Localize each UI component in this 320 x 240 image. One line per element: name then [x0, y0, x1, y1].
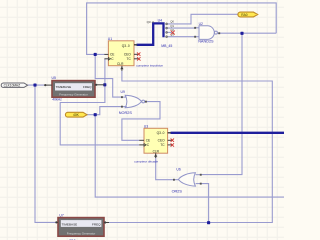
U3 pin names [146, 131, 166, 153]
U7 pins [56, 221, 109, 223]
bus U3 Q3..0 to right edge [171, 132, 285, 134]
wire feedback net top horizontal y=2.9 [87, 3, 277, 55]
svg-text:U1: U1 [108, 37, 112, 41]
svg-text:TC: TC [127, 57, 132, 61]
svg-text:Q3..0: Q3..0 [157, 131, 165, 135]
noERC on Q2 stub [171, 31, 175, 35]
NOR gate U9 [122, 95, 145, 107]
wire U1 CLR east long run [105, 71, 272, 223]
junction 40K port [94, 113, 97, 116]
svg-text:FREQ: FREQ [83, 85, 92, 89]
svg-text:40K: 40K [73, 113, 80, 117]
bus U1 Q3..0 staircase [137, 23, 164, 44]
wire FG1 output up to U1 clock pin [104, 59, 106, 85]
wire Q3 to NAND input 2 [166, 36, 195, 38]
wire NAND out branch down to OR gate input [201, 33, 243, 174]
svg-text:CEO: CEO [158, 139, 165, 143]
wire Q1 to NAND input 1 [166, 27, 195, 29]
svg-text:RA0: RA0 [241, 13, 248, 17]
svg-text:compteur impulsion: compteur impulsion [136, 64, 163, 68]
U7 pin dots [55, 221, 57, 223]
svg-text:U2: U2 [199, 22, 203, 26]
svg-text:CLR: CLR [117, 62, 124, 66]
svg-text:TIMEBASE: TIMEBASE [56, 85, 72, 89]
svg-text:compteur décade: compteur décade [134, 159, 158, 163]
svg-text:FREQ: FREQ [92, 222, 101, 226]
U6 pin end markers [173, 174, 202, 185]
svg-text:Q3..0: Q3..0 [147, 20, 155, 24]
svg-text:Frequency Generator: Frequency Generator [59, 92, 88, 96]
counter U1 body [108, 41, 134, 66]
svg-text:Q3..0: Q3..0 [122, 44, 130, 48]
svg-text:TC: TC [160, 143, 165, 147]
junction NAND output [240, 32, 243, 35]
svg-text:CE: CE [110, 53, 114, 57]
U2 pin end markers [194, 27, 220, 38]
U5 left pin [44, 84, 104, 86]
bus entry dots Q wires [166, 23, 168, 38]
U3 noERC CEO [171, 139, 174, 142]
U9 pin end markers [121, 96, 147, 107]
svg-text:U9: U9 [121, 90, 125, 94]
svg-text:MB_45: MB_45 [161, 44, 172, 48]
svg-text:U6: U6 [176, 167, 180, 171]
U1 noERC TC [137, 57, 140, 60]
wire NAND output to right corner [218, 32, 276, 34]
U1 noERC CEO [137, 52, 140, 55]
wire Q2 stub [166, 31, 172, 33]
U5 pin dots [44, 84, 46, 86]
wire CLK port to FG1 input [28, 84, 45, 86]
junction FG1 output [103, 83, 106, 86]
U1 CLR arrow [120, 66, 123, 69]
port CLK10MHZ [1, 83, 27, 88]
wire Q0 to RA0 port [166, 14, 239, 24]
svg-text:TIMEBASE: TIMEBASE [62, 222, 78, 226]
frequency generator U5 [52, 81, 95, 98]
junction CLK port [33, 84, 36, 87]
U3 CLR arrow [154, 154, 157, 157]
junction U1 CE [94, 53, 97, 56]
wire NOR output to U3 CE [122, 102, 160, 141]
svg-text:Frequency Generator: Frequency Generator [67, 231, 96, 235]
wire U3 CLR down to OR gate output [156, 158, 174, 180]
svg-text:NAND2S: NAND2S [198, 40, 214, 44]
junction FG2 output wire [207, 221, 210, 224]
svg-text:CE: CE [146, 139, 150, 143]
wire CLK branch down to FG2 input [35, 85, 56, 222]
port 40K [65, 112, 87, 117]
U3 noERC TC [171, 143, 174, 146]
svg-text:NOR2S: NOR2S [119, 111, 133, 115]
U1 pin names [110, 44, 131, 66]
svg-text:U3: U3 [144, 124, 148, 128]
svg-text:U4: U4 [158, 19, 163, 23]
svg-text:CLR: CLR [153, 150, 160, 154]
port RA0 [238, 12, 258, 17]
wire 40K down and east to right edge [95, 115, 284, 197]
OR gate U6 mirrored [173, 173, 200, 186]
U3 pins [139, 133, 172, 158]
svg-text:40kHz: 40kHz [52, 97, 62, 101]
wire 40K jog to NOR input 2 [95, 107, 122, 115]
frequency generator U7 [58, 218, 104, 237]
wire 40K port to junction [87, 114, 95, 116]
wire FG1 output down-left to U3 clock pin [60, 85, 139, 145]
svg-text:OR2S: OR2S [172, 189, 183, 193]
svg-text:CEO: CEO [124, 53, 131, 57]
wire junction up to OR gate input 2 [201, 184, 209, 223]
wire CE branch down to 40K junction level [95, 54, 122, 97]
NAND gate U2 [195, 26, 220, 40]
U1 pin CE [104, 45, 138, 71]
svg-text:CLK10MHZ: CLK10MHZ [4, 84, 21, 88]
svg-text:U7: U7 [59, 214, 63, 218]
svg-text:U5: U5 [52, 76, 56, 80]
counter U3 body [144, 128, 168, 153]
